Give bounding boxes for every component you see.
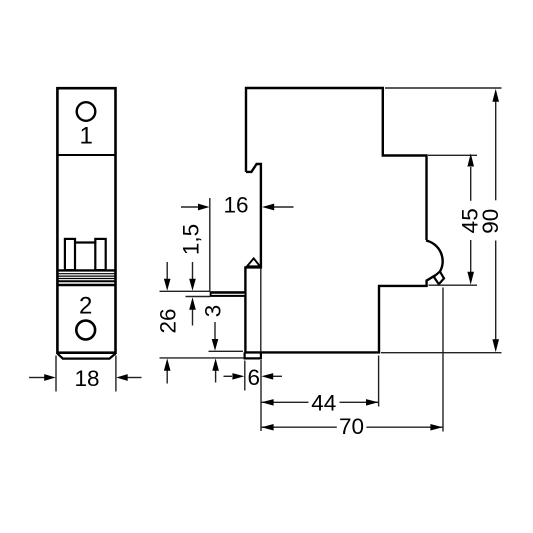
- svg-text:26: 26: [155, 308, 180, 333]
- svg-text:18: 18: [74, 366, 99, 391]
- svg-text:6: 6: [248, 365, 261, 390]
- svg-text:1: 1: [80, 122, 93, 149]
- svg-text:1,5: 1,5: [178, 224, 203, 255]
- svg-text:16: 16: [223, 192, 248, 217]
- svg-text:44: 44: [311, 391, 336, 416]
- svg-text:3: 3: [201, 305, 226, 318]
- svg-text:2: 2: [79, 292, 92, 319]
- svg-text:90: 90: [478, 209, 503, 234]
- svg-text:70: 70: [339, 414, 364, 439]
